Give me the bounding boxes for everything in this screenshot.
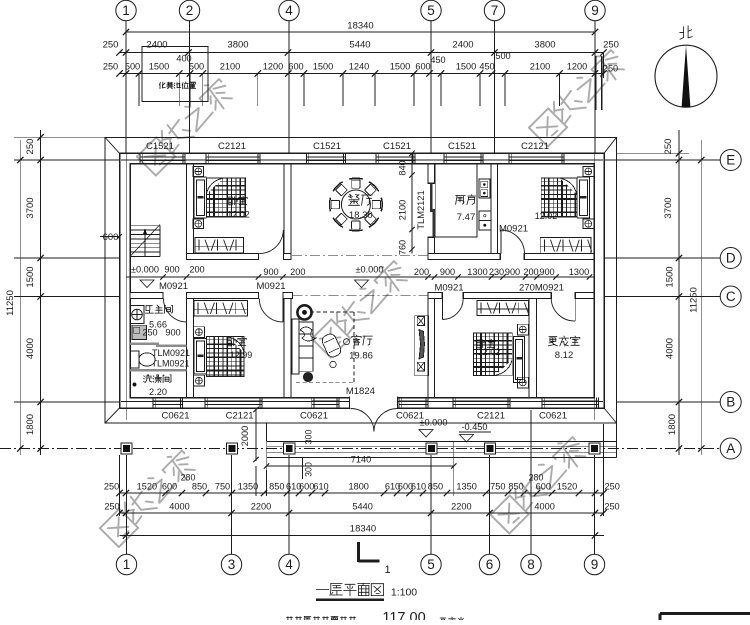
kitchen sliding door TLM2121: [431, 183, 433, 237]
svg-text:TLM0921: TLM0921: [152, 348, 190, 358]
dressing door leaf and arc: [551, 299, 575, 322]
svg-text:M0921: M0921: [434, 283, 463, 294]
bed2 wardrobe: [194, 301, 248, 317]
svg-text:500: 500: [189, 62, 204, 72]
label M0921 bath door: [159, 281, 188, 292]
svg-text:3800: 3800: [534, 39, 555, 50]
svg-text:C1521: C1521: [448, 141, 476, 152]
svg-text:280: 280: [181, 473, 196, 483]
svg-text:1520: 1520: [137, 482, 157, 492]
exterior wall outer: [120, 153, 605, 408]
svg-text:2.20: 2.20: [149, 387, 167, 397]
svg-text:11250: 11250: [5, 290, 16, 316]
svg-text:1500: 1500: [313, 62, 333, 72]
svg-text:900: 900: [263, 267, 278, 277]
living coffee table: [320, 332, 342, 368]
svg-text:C2121: C2121: [477, 411, 505, 422]
watermark 3: [529, 46, 628, 146]
svg-text:500: 500: [125, 62, 140, 72]
wall bed3/dressing: [529, 299, 537, 398]
east bedroom wardrobe: [540, 238, 591, 254]
porch width dim 7140: [264, 442, 457, 470]
dining label: [349, 195, 373, 222]
svg-text:2200: 2200: [451, 502, 471, 512]
window C1521 top-1: [140, 141, 185, 164]
bath dims 250/900: [142, 328, 180, 338]
svg-text:900: 900: [505, 267, 520, 277]
wall C left-3: [283, 293, 293, 299]
svg-text:200: 200: [523, 267, 538, 277]
bottom dimension 18340: [120, 524, 605, 539]
watermark 4: [490, 433, 589, 533]
label M0921 bed3 door: [434, 283, 463, 294]
dressing label: [548, 336, 580, 361]
svg-text:C: C: [726, 289, 736, 304]
septic tank outline: [142, 47, 208, 102]
entrance opening M1824: [350, 397, 398, 410]
wall kitchen/east-bedroom: [491, 164, 498, 254]
grid bubble 6 bottom: [479, 455, 499, 575]
svg-text:200: 200: [414, 267, 429, 277]
wall bed2/living: [284, 299, 291, 398]
grid bubble 5 top: [421, 0, 441, 153]
grid bubble D: [720, 248, 741, 269]
level mark entrance: [419, 418, 448, 438]
svg-text:1800: 1800: [667, 414, 678, 435]
svg-text:1500: 1500: [390, 62, 410, 72]
svg-text:610: 610: [411, 482, 426, 492]
title first floor plan: [316, 583, 417, 598]
svg-text:4: 4: [285, 557, 293, 572]
bed2 headboard: [194, 339, 206, 375]
watermark 5: [100, 447, 199, 547]
grid line 9 in wall: [594, 140, 596, 420]
kitchen stove: [479, 179, 490, 198]
svg-text:600: 600: [103, 232, 119, 243]
svg-text:300: 300: [304, 462, 314, 477]
grid bubble B: [720, 392, 741, 413]
svg-text:840: 840: [398, 160, 408, 175]
window C0621 bottom-3: [300, 398, 339, 422]
living side table: [297, 305, 311, 319]
wall C left-1: [130, 293, 163, 299]
svg-text:850: 850: [428, 482, 443, 492]
svg-text:12.99: 12.99: [230, 350, 253, 360]
svg-text:19.86: 19.86: [349, 351, 373, 362]
corridor dims labels: [164, 264, 589, 277]
bed1 comforter: [206, 178, 245, 217]
svg-text:250: 250: [604, 502, 619, 512]
svg-text:M1824: M1824: [346, 386, 375, 397]
grid bubble 1 bottom: [116, 455, 136, 575]
svg-text:200: 200: [189, 264, 204, 274]
svg-text:5: 5: [427, 3, 435, 18]
east bedroom comforter: [541, 178, 577, 217]
svg-text:250: 250: [603, 64, 618, 74]
svg-text:5440: 5440: [352, 502, 372, 512]
floor drain: [133, 383, 136, 386]
svg-text:9: 9: [591, 3, 599, 18]
bed2 comforter: [207, 337, 245, 377]
east bedroom door leaf and arc: [501, 230, 525, 254]
bottom note clipped: [287, 610, 465, 625]
bed1 wardrobe: [195, 238, 244, 253]
toilet: [131, 351, 156, 368]
wall stair/bed1: [187, 164, 194, 254]
svg-text:750: 750: [490, 482, 505, 492]
level mark corridor left: [131, 264, 159, 287]
bed1 door leaf and arc: [259, 230, 283, 254]
svg-text:11250: 11250: [689, 287, 700, 313]
grid line D leader right: [604, 257, 720, 259]
eave overhang outline: [105, 137, 617, 423]
title underline: [316, 599, 384, 601]
svg-text:1500: 1500: [456, 62, 476, 72]
svg-text:1500: 1500: [149, 62, 169, 72]
wall C left-2: [187, 293, 259, 299]
svg-text:2400: 2400: [146, 39, 167, 50]
label TLM2121: [416, 190, 426, 229]
svg-text:280: 280: [529, 473, 544, 483]
svg-text:5: 5: [427, 557, 435, 572]
svg-text:D: D: [726, 251, 736, 266]
east bedroom headboard: [577, 177, 589, 218]
svg-text:1800: 1800: [348, 482, 368, 492]
north arrow needle: [682, 45, 691, 107]
svg-text:450: 450: [430, 55, 445, 65]
bed2 room label: [228, 337, 252, 360]
svg-text:-0.450: -0.450: [461, 422, 487, 432]
svg-text:1200: 1200: [567, 62, 587, 72]
east bedroom room label: [535, 211, 558, 221]
window C2121 bottom-2: [205, 398, 262, 422]
washing machine: [132, 325, 147, 339]
porch depth dim 2000: [240, 407, 259, 462]
wall D jamb: [284, 254, 292, 260]
svg-text:850: 850: [269, 482, 284, 492]
svg-text:C0621: C0621: [539, 411, 567, 422]
grid line 1 in wall: [125, 140, 127, 420]
grid line D leader left: [14, 257, 120, 259]
wall living/bed3: [428, 299, 435, 398]
svg-text:850: 850: [192, 482, 207, 492]
grid bubble 8 bottom: [521, 410, 541, 575]
window C0621 bottom-6: [539, 398, 599, 422]
svg-text:±0.000: ±0.000: [355, 264, 383, 274]
entrance door M1824 arcs: [351, 409, 398, 432]
svg-text:250: 250: [663, 139, 674, 155]
wall D kitchen-segment: [428, 254, 500, 260]
kitchen sink: [479, 211, 491, 230]
svg-text:18340: 18340: [347, 21, 373, 32]
bed1 room label: [227, 196, 250, 219]
svg-text:500: 500: [495, 51, 510, 61]
svg-text:TLM2121: TLM2121: [416, 190, 426, 229]
grid line D dash-dot dining: [292, 255, 428, 257]
top dimension 18340: [123, 21, 598, 41]
label M1824: [346, 386, 375, 397]
dimension extension lines top: [139, 53, 604, 111]
svg-text:4000: 4000: [169, 502, 189, 512]
level mark porch: [459, 422, 491, 442]
top dimension row 500/1500/400/500/2100/1200/600/1500/1240: [103, 51, 618, 77]
stair width dim 600: [100, 232, 122, 243]
svg-text:1500: 1500: [665, 266, 676, 287]
grid line B leader right: [617, 401, 721, 403]
sliding door TLM0921 lower: [130, 369, 187, 372]
svg-text:1240: 1240: [349, 62, 369, 72]
svg-text:C1521: C1521: [313, 141, 341, 152]
grid bubble 4 top: [279, 0, 299, 153]
section mark 1: [359, 542, 391, 576]
shower label: [144, 375, 171, 397]
svg-text:6: 6: [486, 557, 494, 572]
svg-text:4: 4: [285, 3, 293, 18]
svg-text:3700: 3700: [25, 197, 36, 218]
wall D east-bed-segment: [524, 254, 594, 260]
window C1521 top-3: [307, 141, 346, 164]
kitchen island counter: [435, 164, 477, 237]
svg-text:2200: 2200: [251, 502, 271, 512]
svg-text:3700: 3700: [663, 197, 674, 218]
svg-text:750: 750: [215, 482, 230, 492]
svg-text:1350: 1350: [238, 482, 258, 492]
svg-text:850: 850: [508, 482, 523, 492]
title block corner: [660, 614, 750, 621]
grid bubble 7 top: [484, 0, 504, 153]
living label: [349, 335, 373, 362]
window C2121 top-2: [206, 141, 260, 164]
bed3 wardrobe: [477, 301, 528, 316]
bed1 nightstands: [193, 167, 204, 229]
svg-text:4000: 4000: [665, 338, 676, 359]
label M0921 bed2 door: [256, 281, 285, 292]
svg-text:C1521: C1521: [383, 141, 411, 152]
label M0921 east bedroom: [499, 224, 528, 235]
grid bubble 2 top: [179, 0, 199, 153]
svg-text:4000: 4000: [25, 338, 36, 359]
svg-text:600: 600: [415, 62, 430, 72]
left dimension chain 250/3700/1500/4000/1800: [25, 130, 44, 455]
north label: [680, 26, 693, 40]
svg-text:270M0921: 270M0921: [519, 283, 564, 294]
bed3 headboard: [514, 337, 525, 383]
svg-text:1350: 1350: [456, 482, 476, 492]
north arrow circle: [655, 45, 717, 107]
svg-text:250: 250: [103, 39, 119, 50]
svg-text:7: 7: [491, 3, 499, 18]
stair: [130, 225, 160, 257]
svg-text:1300: 1300: [569, 267, 589, 277]
svg-text:250: 250: [605, 482, 620, 492]
svg-text:230: 230: [489, 267, 504, 277]
svg-text:2100: 2100: [220, 62, 240, 72]
wall C right-3: [575, 293, 594, 299]
grid line B in wall: [121, 401, 603, 403]
wall kitchen left bottom stub: [428, 237, 435, 255]
washbasin: [130, 306, 144, 324]
bottom dimension row 4000/2200/5440/2200/4000: [104, 502, 619, 517]
window C1521 top-4: [376, 141, 415, 164]
eave leader left: [14, 136, 105, 138]
kitchen label: [456, 195, 476, 223]
grid line E leader right: [604, 159, 720, 161]
bed3 nightstands: [518, 324, 529, 388]
svg-text:600: 600: [299, 482, 314, 492]
bath door leaf and arc: [164, 299, 187, 323]
svg-text:B: B: [726, 395, 735, 410]
svg-text:900: 900: [539, 267, 554, 277]
wall C right-1: [428, 293, 442, 299]
grid bubble 3 bottom: [221, 455, 241, 575]
level mark corridor right: [355, 264, 384, 287]
dining table with chairs: [330, 178, 383, 231]
corridor dimension line: [126, 274, 594, 279]
svg-text:3800: 3800: [227, 39, 248, 50]
svg-text:2100: 2100: [530, 62, 550, 72]
svg-text:117.00: 117.00: [382, 610, 425, 620]
svg-text:600: 600: [162, 482, 177, 492]
svg-text:18.30: 18.30: [349, 210, 373, 221]
svg-text:A: A: [726, 441, 735, 456]
grid line C leader left: [14, 296, 120, 298]
svg-text:450: 450: [479, 62, 494, 72]
bottom dimension row detail line: [116, 490, 606, 496]
bed2 nightstands: [194, 327, 205, 386]
grid bubble 4 bottom: [279, 455, 299, 575]
porch slab and steps: [267, 442, 617, 458]
svg-text:900: 900: [440, 267, 455, 277]
svg-text:250: 250: [25, 139, 36, 155]
svg-text:1: 1: [123, 557, 131, 572]
right overall dimension 11250: [689, 140, 705, 455]
living dashed zone: [296, 312, 354, 382]
living sofa: [292, 319, 313, 374]
svg-text:250: 250: [104, 482, 119, 492]
bed2 door leaf and arc: [259, 299, 283, 323]
svg-text:12.02: 12.02: [535, 211, 558, 221]
grid line E in wall: [121, 159, 603, 161]
svg-text:1500: 1500: [25, 266, 36, 287]
exterior wall inner: [130, 164, 594, 398]
svg-text:3: 3: [228, 557, 236, 572]
septic tank label: [159, 82, 195, 89]
bottom dimension row detail labels: [104, 473, 620, 492]
watermark 2: [312, 257, 411, 357]
svg-text:200: 200: [290, 267, 305, 277]
grid bubble A: [720, 438, 741, 459]
dining interior dims 840/2100/760: [398, 151, 415, 256]
grid bubble 1 top: [116, 0, 136, 153]
top dimension row 2400/3800/5440/2400/3800: [103, 39, 619, 55]
svg-text:300: 300: [304, 430, 314, 445]
grid line A dash-dot: [0, 448, 720, 450]
svg-text:900: 900: [165, 328, 180, 338]
svg-text:C2121: C2121: [218, 141, 246, 152]
bed3 room label: [477, 339, 500, 357]
svg-text:250: 250: [142, 328, 157, 338]
svg-text:C1521: C1521: [146, 141, 174, 152]
svg-text:2100: 2100: [398, 200, 408, 220]
grid line E leader left: [14, 159, 120, 161]
porch edge verticals: [267, 423, 617, 458]
living small table: [303, 372, 312, 381]
svg-text:250: 250: [104, 502, 119, 512]
wall bed1/dining: [284, 164, 291, 254]
svg-text:C2121: C2121: [521, 141, 549, 152]
grid bubble 9 bottom: [584, 455, 604, 575]
bed3 comforter: [473, 333, 512, 375]
svg-text:600: 600: [536, 482, 551, 492]
svg-text:12.02: 12.02: [227, 210, 250, 220]
svg-text:18340: 18340: [350, 524, 376, 535]
svg-text:9: 9: [591, 557, 599, 572]
grid bubble C: [720, 286, 741, 307]
porch dim 300 lower: [304, 462, 314, 477]
svg-text:2400: 2400: [452, 39, 473, 50]
svg-text:1520: 1520: [557, 482, 577, 492]
svg-text:1: 1: [384, 564, 390, 576]
label 270M0921 dressing door: [519, 283, 564, 294]
svg-text:C0621: C0621: [300, 411, 328, 422]
right dimension chain 250/3700/1500/4000/1800: [663, 130, 682, 455]
window C1521 top-5: [444, 141, 483, 164]
grid line C leader right: [604, 296, 720, 298]
svg-text:C2121: C2121: [226, 411, 254, 422]
svg-text:1200: 1200: [263, 62, 283, 72]
window C0621 bottom-1: [153, 398, 190, 422]
svg-text:1300: 1300: [467, 267, 487, 277]
porch dim 300 upper: [304, 430, 314, 445]
svg-text:TLM0921: TLM0921: [151, 359, 189, 369]
wall D bed1-segment: [187, 254, 259, 260]
window C0621 bottom-4: [396, 398, 428, 422]
svg-text:250: 250: [103, 62, 118, 72]
window C2121 top-6: [509, 141, 564, 164]
dimension extension lines bottom: [120, 424, 604, 516]
grid line B leader left: [14, 401, 120, 403]
svg-text:±0.000: ±0.000: [419, 418, 447, 428]
eave leader right: [617, 152, 690, 154]
sliding door TLM0921 upper: [130, 342, 187, 347]
svg-text:7140: 7140: [351, 455, 371, 465]
svg-text:8: 8: [527, 557, 535, 572]
grid bubble 5 bottom: [421, 455, 441, 575]
labels TLM0921: [151, 348, 190, 369]
svg-text:760: 760: [398, 240, 408, 255]
svg-text:1: 1: [122, 3, 130, 18]
svg-text:2000: 2000: [240, 426, 250, 446]
living tv cabinet: [415, 316, 429, 376]
bed1 headboard: [194, 177, 206, 218]
porch columns: [121, 443, 600, 454]
svg-text:250: 250: [603, 39, 619, 50]
svg-text:610: 610: [313, 482, 328, 492]
grid line C dash-dot living: [293, 295, 429, 297]
wall C right-2: [463, 293, 551, 299]
grid bubble E: [720, 150, 741, 171]
svg-text:900: 900: [164, 264, 179, 274]
svg-text:M0921: M0921: [499, 224, 528, 235]
grid bubble 9 top: [585, 0, 605, 153]
window C2121 bottom-5: [453, 398, 510, 422]
east bedroom nightstands: [583, 167, 594, 229]
svg-text:12.02: 12.02: [478, 347, 501, 357]
bath label: [145, 305, 172, 329]
wall kitchen left top stub: [428, 164, 435, 184]
svg-text:4000: 4000: [534, 502, 554, 512]
svg-text:C0621: C0621: [162, 411, 190, 422]
